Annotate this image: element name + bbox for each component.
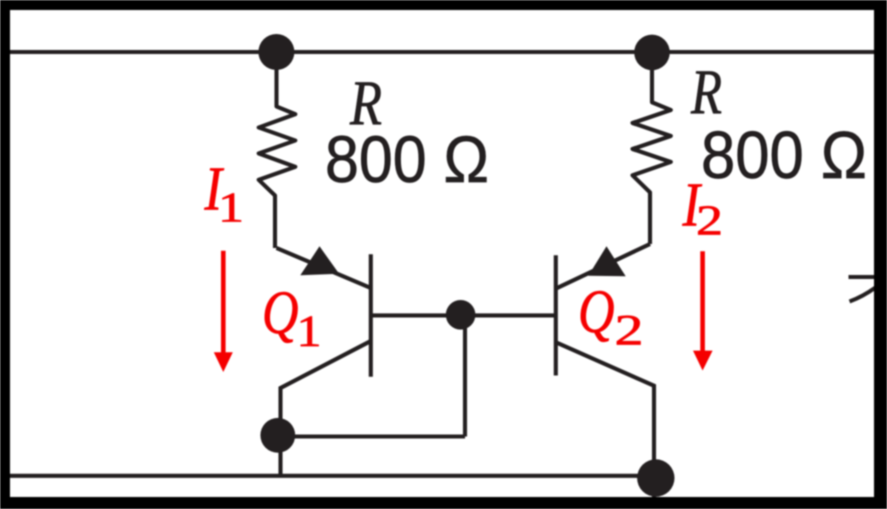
Q1 emitter arrow	[300, 246, 339, 275]
node top-left junction	[258, 34, 294, 70]
transistor Q2	[556, 244, 654, 497]
node ground junction	[637, 459, 674, 496]
Q2 emitter arrow	[588, 246, 625, 276]
node top-right junction	[634, 35, 670, 71]
svg-text:2: 2	[615, 308, 644, 355]
wire partial right component lead	[849, 275, 875, 279]
Q2 base bar	[554, 255, 558, 375]
current arrow I2	[700, 251, 705, 351]
wire top supply rail	[10, 50, 874, 54]
svg-text:1: 1	[218, 186, 244, 232]
node base junction	[446, 300, 476, 330]
wire partial right component curve	[850, 288, 876, 302]
wire diode link horizontal	[278, 434, 465, 438]
transistor Q1	[277, 246, 371, 475]
node collector-diode junction	[260, 418, 295, 453]
resistor R1	[259, 52, 296, 248]
Q1 collector wire	[281, 341, 371, 476]
wire base link Q1-Q2	[371, 313, 556, 317]
current arrow I1	[221, 251, 226, 353]
wire base-node drop	[463, 315, 467, 436]
svg-text:Q: Q	[578, 279, 615, 346]
svg-text:800 Ω: 800 Ω	[325, 122, 489, 196]
Q1 emitter wire	[277, 248, 371, 288]
svg-text:2: 2	[696, 199, 723, 245]
svg-text:Q: Q	[262, 280, 299, 347]
Q1 base bar	[369, 254, 373, 377]
border frame	[0, 0, 887, 10]
Q2 emitter wire	[556, 244, 650, 289]
Q2 collector wire	[556, 342, 654, 497]
wire bottom ground rail	[10, 474, 656, 478]
svg-text:1: 1	[297, 307, 322, 356]
resistor R2	[633, 52, 671, 244]
svg-text:800 Ω: 800 Ω	[701, 118, 867, 193]
